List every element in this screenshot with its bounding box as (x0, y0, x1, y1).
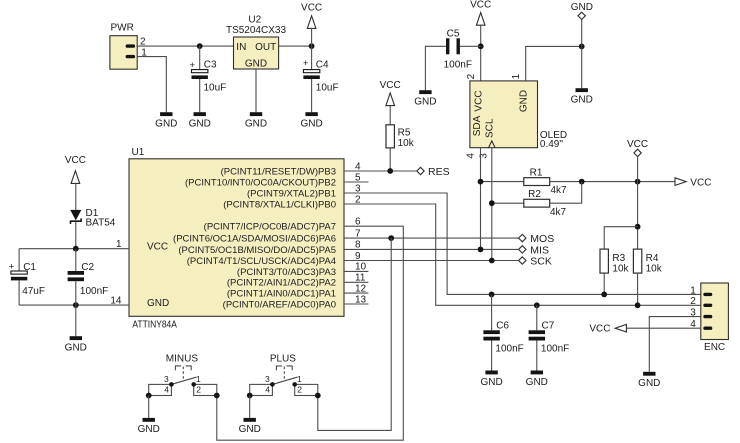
resistor R5 (386, 125, 394, 148)
capacitor C1 (11, 271, 27, 280)
wire C3 to ground (199, 79, 201, 112)
svg-text:2: 2 (297, 385, 302, 395)
svg-text:VCC: VCC (473, 90, 484, 111)
ground (U2) (245, 112, 267, 129)
svg-text:2: 2 (690, 296, 696, 307)
ground (C4) (300, 112, 322, 129)
svg-text:(PCINT7/ICP/OC0B/ADC7)PA7: (PCINT7/ICP/OC0B/ADC7)PA7 (204, 222, 336, 233)
svg-text:GND: GND (414, 97, 436, 108)
wire OLED pin1 to GND net (526, 46, 582, 81)
net flag SCK (519, 257, 526, 264)
gnd net flag (diamond) (578, 12, 585, 19)
regulator U2 designator (248, 15, 261, 26)
wire PWR-1 to ground (137, 57, 166, 113)
display OLED module (470, 81, 538, 148)
net label MIS (530, 245, 549, 257)
OLED pin number 3 (478, 153, 489, 159)
power VCC (above R5) (380, 80, 401, 106)
pin 4 of ENC (705, 327, 711, 330)
capacitor C7 value (541, 344, 569, 355)
svg-text:GND: GND (638, 378, 660, 389)
junction pin7/PLUS (388, 235, 394, 241)
pin 1 of PWR (127, 55, 133, 58)
svg-text:3: 3 (164, 374, 169, 384)
junction VCC net/R1 (635, 179, 641, 185)
junction at OLED gnd net (579, 44, 585, 50)
svg-text:GND: GND (155, 119, 177, 130)
wire U2 OUT to VCC node (279, 45, 312, 47)
svg-text:MOS: MOS (530, 233, 554, 245)
svg-text:10k: 10k (398, 138, 415, 149)
svg-text:10k: 10k (646, 263, 663, 274)
ground (C3) (189, 112, 211, 129)
wire SCL to R2 (492, 202, 524, 204)
pin 2 of ENC (705, 304, 711, 307)
capacitor C1 value (22, 286, 45, 297)
svg-text:GND: GND (147, 298, 169, 309)
junction SDA/R1 (478, 179, 484, 185)
resistor R4 (633, 249, 641, 273)
svg-text:GND: GND (571, 95, 593, 106)
svg-text:VCC: VCC (147, 242, 168, 253)
svg-text:100nF: 100nF (444, 59, 472, 70)
ground (PLUS) (239, 418, 261, 435)
connector ENC (701, 283, 729, 340)
svg-text:PWR: PWR (111, 22, 134, 33)
svg-text:TS5204CX33: TS5204CX33 (226, 25, 286, 36)
wire pin6 to MINUS switch (217, 226, 403, 440)
svg-text:4k7: 4k7 (550, 207, 567, 218)
svg-text:ATTINY84A: ATTINY84A (132, 320, 177, 331)
svg-text:0.49": 0.49" (540, 139, 563, 150)
net label SCK (530, 256, 552, 268)
junction R3/ENC1 (601, 292, 607, 298)
ground (C5) (414, 90, 436, 107)
diode D1 BAT54 (70, 210, 81, 224)
vcc arrow left (ENC) (615, 324, 626, 332)
svg-text:C4: C4 (316, 59, 329, 70)
junction R3 branch (635, 224, 641, 230)
pin number 1 (ENC) (690, 285, 696, 296)
wire pin14 row (19, 304, 129, 306)
junction C6/ENC1 (489, 292, 495, 298)
net flag RES (417, 167, 424, 174)
svg-text:100nF: 100nF (495, 344, 523, 355)
wire down to C3 (199, 46, 201, 70)
resistor R3 label (612, 253, 625, 264)
svg-text:4: 4 (265, 385, 270, 395)
wire R2 up to R1 net (550, 182, 582, 204)
svg-text:3: 3 (265, 374, 270, 384)
wire to ground (C2) (75, 305, 77, 336)
svg-text:GND: GND (519, 90, 530, 112)
OLED clock marker on SCL (489, 141, 496, 148)
svg-text:1: 1 (196, 374, 201, 384)
capacitor C7 (529, 330, 545, 340)
capacitor C2 label (81, 262, 94, 273)
OLED pin number 2 (466, 73, 477, 79)
switch PLUS (247, 353, 321, 398)
svg-text:GND: GND (526, 377, 548, 388)
svg-text:100nF: 100nF (541, 344, 569, 355)
ic U1 ATTINY84A (129, 159, 344, 316)
OLED size label (540, 139, 563, 150)
junction R4/ENC2 (635, 302, 641, 308)
OLED pin label GND (519, 90, 530, 112)
vcc arrow right label (690, 177, 711, 188)
vcc arrow right (675, 178, 686, 186)
diode D1 value (86, 218, 116, 229)
pin 3 of ENC (705, 315, 711, 318)
ground (MINUS) (138, 418, 160, 435)
svg-text:100nF: 100nF (80, 286, 108, 297)
OLED pin label VCC (473, 90, 484, 111)
capacitor C3 plus sign (190, 60, 196, 71)
wire MINUS to ground (148, 396, 150, 418)
resistor R2 value (550, 207, 567, 218)
svg-text:VCC: VCC (690, 177, 711, 188)
wire D1 to pin1 row (75, 222, 77, 249)
junction at C4/VCC (309, 43, 315, 49)
wire VCC to R5 (389, 106, 391, 125)
wire C2 top (75, 249, 77, 271)
wire stub pin 11 (344, 281, 368, 283)
capacitor C3 label (204, 59, 217, 70)
svg-text:OUT: OUT (255, 42, 276, 53)
wire pin2 to ENC pin2 (344, 204, 701, 305)
wire down to C7 (536, 305, 538, 330)
pin number 1 (PWR) (141, 47, 147, 58)
net flag VCC (diamond) (634, 149, 641, 156)
wire branch to R3 (604, 227, 637, 249)
wire pin8 to MIS (344, 248, 519, 250)
capacitor C5 value (444, 59, 472, 70)
svg-text:(PCINT5/OC1B/MISO/DO/ADC5)PA5: (PCINT5/OC1B/MISO/DO/ADC5)PA5 (178, 245, 336, 256)
junction R1/R2 net (579, 179, 585, 185)
OLED pin number 4 (466, 153, 477, 159)
pin number 2 (ENC) (690, 296, 696, 307)
power VCC (above OLED) (470, 0, 491, 25)
capacitor C6 value (495, 344, 523, 355)
wire C2 bottom (75, 281, 77, 305)
wire junction to PLUS switch (318, 238, 391, 430)
svg-text:MINUS: MINUS (166, 353, 199, 364)
ic U1 left pin GND label (147, 298, 169, 309)
net flag MOS (519, 234, 526, 241)
wire ENC pin4 to VCC (626, 327, 700, 329)
junction C7/ENC2 (534, 302, 540, 308)
capacitor C4 (303, 70, 319, 79)
ic U1 left pin VCC label (147, 242, 168, 253)
svg-text:C1: C1 (23, 262, 36, 273)
power VCC (top, above C4) (301, 3, 322, 29)
resistor R5 label (398, 127, 411, 138)
wire VCC arrow to C4 (311, 28, 313, 69)
wire stub pin 5 (344, 181, 368, 183)
wire C1 bottom (18, 280, 20, 305)
svg-text:(PCINT2/AIN1/ADC2)PA2: (PCINT2/AIN1/ADC2)PA2 (227, 278, 336, 289)
capacitor C1 plus sign (9, 261, 15, 272)
svg-text:U1: U1 (132, 147, 145, 158)
svg-text:(PCINT3/T0/ADC3)PA3: (PCINT3/T0/ADC3)PA3 (237, 267, 336, 278)
ground (ENC) (638, 372, 660, 389)
svg-text:VCC: VCC (380, 80, 401, 91)
ic U1 pin number 1 (116, 239, 122, 250)
svg-text:3: 3 (478, 153, 489, 159)
net label MOS (530, 233, 554, 245)
svg-text:SCK: SCK (530, 256, 552, 268)
wire VCC to OLED pin2 (480, 25, 482, 81)
svg-text:GND: GND (245, 119, 267, 130)
capacitor C4 label (316, 59, 329, 70)
capacitor C5 label (447, 28, 460, 39)
net flag MIS (519, 246, 526, 253)
pin 2 of PWR (127, 44, 133, 47)
svg-text:2: 2 (196, 385, 201, 395)
svg-text:(PCINT10/INT0/OC0A/CKOUT)PB2: (PCINT10/INT0/OC0A/CKOUT)PB2 (185, 177, 336, 188)
regulator U2 value TS5204CX33 (226, 25, 286, 36)
wire VCC to D1 (75, 183, 77, 210)
svg-text:47uF: 47uF (22, 286, 45, 297)
svg-text:C3: C3 (204, 59, 217, 70)
OLED pin number 1 (511, 73, 522, 79)
svg-text:(PCINT8/XTAL1/CLKI)PB0: (PCINT8/XTAL1/CLKI)PB0 (223, 199, 336, 210)
svg-text:GND: GND (138, 424, 160, 435)
junction C2/gnd row (73, 302, 79, 308)
capacitor C2 value (80, 286, 108, 297)
svg-text:GND: GND (300, 119, 322, 130)
svg-text:4: 4 (164, 385, 169, 395)
svg-text:GND: GND (245, 58, 267, 69)
ground (PWR pin1) (155, 112, 177, 129)
wire SDA to R1 (481, 181, 524, 183)
wire stub pin 13 (344, 303, 368, 305)
svg-text:C5: C5 (447, 28, 460, 39)
capacitor C7 label (542, 320, 555, 331)
ic U1 value (132, 320, 177, 331)
switch MINUS (146, 353, 220, 398)
wire GND net vertical (581, 20, 583, 89)
resistor R2 (524, 199, 550, 207)
svg-text:1: 1 (511, 73, 522, 79)
svg-text:4k7: 4k7 (551, 185, 568, 196)
resistor R1 (524, 178, 550, 186)
svg-text:BAT54: BAT54 (86, 218, 116, 229)
svg-text:(PCINT0/AREF/ADC0)PA0: (PCINT0/AREF/ADC0)PA0 (223, 299, 336, 310)
ground (C1/C2) (65, 336, 87, 353)
svg-text:10k: 10k (612, 263, 629, 274)
svg-text:4: 4 (466, 153, 477, 159)
ic U1 right pin names and numbers (173, 161, 367, 310)
svg-text:R1: R1 (530, 167, 543, 178)
svg-text:PLUS: PLUS (270, 353, 296, 364)
svg-text:VCC: VCC (65, 155, 86, 166)
OLED name label (540, 130, 567, 141)
svg-text:MIS: MIS (530, 245, 549, 257)
wire C1 top (18, 249, 20, 271)
power VCC (left) (65, 155, 86, 183)
resistor R1 value (551, 185, 568, 196)
svg-text:VCC: VCC (589, 324, 610, 335)
wire C4 to ground (311, 79, 313, 112)
capacitor C1 label (23, 262, 36, 273)
svg-text:+: + (303, 58, 309, 69)
svg-text:R2: R2 (528, 189, 541, 200)
net label RES (428, 166, 450, 178)
ground (C6) (480, 371, 502, 388)
capacitor C4 value (316, 83, 339, 94)
capacitor C4 plus sign (303, 58, 309, 69)
ic U1 designator (132, 147, 145, 158)
wire R4 to ENC2 row (637, 273, 639, 305)
wire SDA from OLED pin4 (480, 148, 482, 250)
svg-text:(PCINT1/AIN0/ADC1)PA1: (PCINT1/AIN0/ADC1)PA1 (227, 289, 336, 300)
junction SCL/SCK (489, 258, 495, 264)
wire PWR-2 to U2 IN (137, 45, 233, 47)
wire C6 to ground (491, 341, 493, 371)
power VCC label (R3/R4) (627, 139, 648, 150)
resistor R1 label (530, 167, 543, 178)
svg-text:1: 1 (297, 374, 302, 384)
wire pin4 to RES (344, 170, 417, 172)
pin number 2 (PWR) (140, 37, 146, 48)
svg-text:ENC: ENC (704, 342, 725, 353)
wire PLUS to ground (249, 396, 251, 418)
gnd net flag label (571, 2, 593, 13)
capacitor C3 (192, 70, 208, 79)
svg-text:2: 2 (466, 73, 477, 79)
ground (C7) (526, 371, 548, 388)
junction D1/C2 (73, 246, 79, 252)
OLED pin label SCL (484, 118, 495, 138)
svg-text:10uF: 10uF (316, 83, 339, 94)
OLED pin label SDA (472, 115, 483, 136)
svg-text:1: 1 (690, 285, 696, 296)
svg-text:C2: C2 (81, 262, 94, 273)
wire SCL from OLED pin3 (491, 148, 493, 261)
svg-text:(PCINT9/XTAL2)PB1: (PCINT9/XTAL2)PB1 (247, 188, 336, 199)
wire U2 GND pin to ground (255, 69, 257, 112)
svg-text:RES: RES (428, 166, 450, 178)
connector PWR (110, 36, 137, 69)
resistor R3 (600, 249, 608, 273)
wire stub pin 12 (344, 292, 368, 294)
resistor R4 label (646, 253, 659, 264)
svg-text:GND: GND (189, 119, 211, 130)
svg-text:C6: C6 (496, 320, 509, 331)
svg-text:R5: R5 (398, 127, 411, 138)
junction SDA/MIS (478, 247, 484, 253)
wire R3 to ENC1 row (603, 273, 605, 294)
wire C7 to ground (536, 341, 538, 371)
svg-text:SDA: SDA (472, 115, 483, 136)
wire stub pin 10 (344, 270, 368, 272)
pin number 3 (ENC) (690, 308, 696, 319)
connector ENC label (704, 342, 725, 353)
connector PWR label (111, 22, 134, 33)
svg-text:GND: GND (239, 424, 261, 435)
svg-text:(PCINT4/T1/SCL/USCK/ADC4)PA4: (PCINT4/T1/SCL/USCK/ADC4)PA4 (187, 256, 336, 267)
wire R5 to RES node (389, 148, 391, 171)
ic U1 pin number 14 (110, 296, 122, 307)
resistor R4 value (646, 263, 663, 274)
svg-text:GND: GND (480, 377, 502, 388)
wire pin3 to ENC pin1 (344, 193, 701, 294)
capacitor C3 value (204, 83, 227, 94)
capacitor C6 label (496, 320, 509, 331)
junction SCL/R2 (489, 200, 495, 206)
svg-text:SCL: SCL (484, 118, 495, 138)
resistor R2 label (528, 189, 541, 200)
svg-text:10uF: 10uF (204, 83, 227, 94)
svg-text:(PCINT11/RESET/DW)PB3: (PCINT11/RESET/DW)PB3 (221, 166, 336, 177)
capacitor C2 (68, 271, 84, 281)
wire down to C6 (491, 294, 493, 330)
resistor R5 value (398, 138, 415, 149)
junction at C5/OLED (478, 43, 484, 49)
ground (OLED) (571, 88, 593, 105)
svg-text:GND: GND (65, 343, 87, 354)
svg-text:VCC: VCC (470, 0, 491, 10)
svg-text:C7: C7 (542, 320, 555, 331)
junction R5/pin4 (387, 168, 393, 174)
svg-text:GND: GND (571, 2, 593, 13)
wire R1 to VCC arrow (550, 181, 675, 183)
diode D1 label (86, 208, 99, 219)
wire pin7 to MOS (344, 237, 519, 239)
vcc arrow left label (589, 324, 610, 335)
svg-text:(PCINT6/OC1A/SDA/MOSI/ADC6)PA6: (PCINT6/OC1A/SDA/MOSI/ADC6)PA6 (173, 234, 336, 245)
capacitor C5 (446, 38, 460, 54)
wire C5 right side (460, 45, 481, 47)
wire C5 left to ground (425, 46, 446, 90)
resistor R3 value (612, 263, 629, 274)
wire pin1 row (19, 248, 129, 250)
svg-text:IN: IN (236, 42, 246, 53)
capacitor C6 (483, 330, 499, 340)
svg-text:VCC: VCC (301, 3, 322, 14)
junction at C3 (197, 43, 203, 49)
wire pin9 to SCK (344, 260, 519, 262)
wire ENC pin3 to ground (649, 317, 701, 372)
wire VCC diamond down (637, 157, 639, 250)
regulator U2 TS5204CX33 (234, 37, 279, 69)
pin number 4 (ENC) (690, 319, 696, 330)
pin 1 of ENC (705, 293, 711, 296)
